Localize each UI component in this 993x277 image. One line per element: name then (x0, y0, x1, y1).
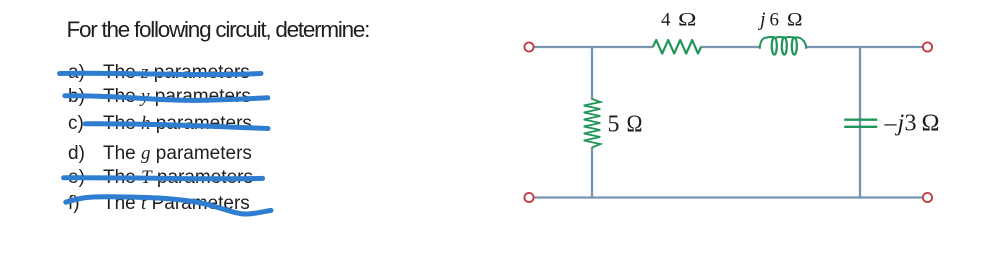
svg-text:4: 4 (661, 9, 671, 30)
svg-text:5: 5 (608, 112, 620, 138)
inductor j6ohm value label (757, 8, 803, 30)
terminal top-left (524, 42, 533, 51)
terminal top-right (923, 42, 932, 51)
wire top (534, 46, 923, 48)
wire left branch lower (591, 147, 593, 199)
svg-text:Ω: Ω (922, 110, 940, 136)
title text (67, 17, 370, 43)
list item a (68, 62, 85, 84)
terminal bottom-left (524, 193, 533, 202)
svg-text:j6: j6 (757, 8, 779, 30)
svg-text:Ω: Ω (678, 9, 697, 30)
strike line e (64, 178, 263, 179)
wire left branch upper (591, 46, 593, 100)
list item d (68, 143, 85, 165)
svg-text:Ω: Ω (627, 112, 643, 138)
resistor 4ohm (653, 40, 701, 54)
list item c (68, 113, 84, 135)
resistor 5ohm (584, 99, 601, 148)
terminal bottom-right (923, 193, 932, 202)
svg-text:Ω: Ω (787, 9, 803, 30)
list item b (68, 86, 85, 108)
resistor 5ohm value label (608, 112, 643, 138)
list item f (68, 193, 80, 215)
inductor j6ohm (760, 37, 807, 55)
strike line c (85, 124, 268, 129)
capacitor -j3ohm (844, 120, 877, 127)
strike line b (65, 96, 268, 101)
capacitor -j3ohm value label (884, 110, 940, 136)
wire right branch (859, 46, 861, 199)
wire bottom (534, 196, 923, 198)
resistor 4ohm value label (661, 9, 697, 30)
list item e (68, 167, 85, 189)
strike line a (60, 73, 261, 74)
strike line f (66, 197, 271, 214)
svg-text:–j3: –j3 (884, 110, 917, 136)
